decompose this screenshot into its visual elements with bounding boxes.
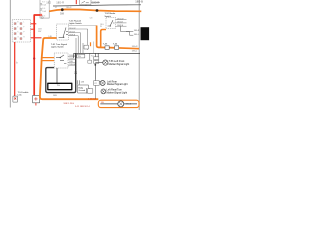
hazard pin wire to fuse drop (y=25.5) [68, 25, 96, 27]
svg-text:T-44: T-44 [113, 43, 118, 45]
svg-text:5-8: 5-8 [60, 13, 64, 16]
svg-text:W: W [100, 26, 102, 28]
orange stub to turn signal switch (lower) [41, 60, 54, 62]
connector ref box lower [94, 60, 99, 63]
svg-text:18R 1.25G: 18R 1.25G [63, 103, 74, 105]
fuse box bottom pin [41, 17, 43, 19]
fusible link box (left red wire end) [13, 96, 18, 102]
svg-text:18G-R: 18G-R [117, 22, 123, 24]
svg-text:18W-B: 18W-B [69, 35, 76, 37]
connector box C-2 [94, 81, 100, 86]
L1 label [109, 60, 130, 66]
connector stubs above ground label box [76, 80, 78, 84]
fuse box F (top-left) (40,0)-(49,18) [40, 0, 49, 18]
page border right [138, 0, 140, 110]
svg-text:L: L [23, 21, 24, 23]
red stub to flasher pin 2 [31, 28, 34, 30]
svg-text:Lights Switch: Lights Switch [51, 45, 65, 48]
svg-text:E: E [17, 26, 19, 28]
svg-text:b: b [16, 62, 18, 65]
fusible link label (left) [18, 92, 30, 97]
svg-text:5-11 18R-W 14: 5-11 18R-W 14 [75, 106, 90, 108]
switch symbol inside S1 [82, 1, 89, 3]
svg-text:18G-B: 18G-B [69, 31, 75, 33]
highlight box (orange) around failed lamp [98, 100, 139, 107]
turn signal pin wires right [68, 55, 76, 57]
pin stub S1 to top bus [85, 4, 87, 7]
red stub to flasher pin 1 [31, 23, 37, 25]
svg-text:18B-W: 18B-W [69, 64, 75, 66]
junction dot B (97,10.3) [96, 9, 99, 12]
svg-text:18G-W: 18G-W [69, 28, 75, 30]
flasher pin X marks (red) [14, 23, 22, 40]
fuse T-45 [105, 46, 109, 50]
svg-text:Link: Link [18, 95, 23, 97]
battery / fusible link box (main red end) [33, 95, 40, 102]
brake switch S4 dashed box (106,17)-(115.5,28.5) [106, 17, 116, 28]
svg-text:X: X [17, 31, 19, 33]
wire inside highlight box [100, 103, 137, 105]
L2 label [107, 80, 128, 86]
L3 label [107, 89, 128, 95]
red stub to flasher pin 3 (lower) [31, 37, 42, 39]
T-5 tag under bus [77, 54, 85, 58]
svg-text:P: P [23, 31, 25, 33]
brake switch symbol [108, 20, 115, 26]
ground strap label box [78, 85, 89, 93]
faint drop line left of hazard feed riser [93, 42, 95, 54]
orange wire hazard feed: elbow (42,37.3) down to bottom bus [40, 38, 98, 99]
svg-text:18G-W: 18G-W [117, 18, 123, 20]
lamp L4 (highlighted) [118, 101, 124, 107]
svg-text:F: F [23, 26, 25, 28]
svg-text:G: G [17, 36, 19, 38]
main ground bus (y=53.4) [74, 52, 140, 54]
hazard drop wires (middle verticals) [75, 38, 77, 53]
main orange feed wire (y=10.3) [49, 9, 141, 11]
hazard switch symbol [59, 28, 68, 38]
svg-text:18L-B: 18L-B [126, 103, 132, 105]
hazard pin wire (y=32.6) [68, 32, 80, 34]
red tick left of S1 [75, 0, 77, 4]
wire from S1 right (y=2.2) [91, 1, 100, 3]
flasher pin labels [17, 21, 25, 38]
hazard switch label [69, 20, 83, 26]
ground return path (U shape) [46, 53, 76, 92]
svg-text:Marker/Signal Light: Marker/Signal Light [107, 92, 128, 95]
junction dot [94, 64, 96, 66]
fuse T-44 [115, 46, 119, 50]
svg-text:T-45: T-45 [103, 43, 108, 45]
svg-text:18G-R: 18G-R [134, 30, 140, 32]
turn signal switch label [51, 43, 68, 49]
svg-text:T-51 Turn Signal: T-51 Turn Signal [51, 43, 68, 46]
brake switch S4 label [105, 12, 116, 18]
junction block (black box) [141, 27, 150, 40]
svg-text:Marker/Signal Light: Marker/Signal Light [109, 63, 130, 66]
fuse box left pins [40, 3, 42, 5]
svg-text:18G-R: 18G-R [56, 1, 64, 5]
svg-text:Ground: Ground [79, 90, 86, 92]
flasher relay U1 dashed box (12,19.5)-(30.5,42) [12, 20, 30, 42]
svg-text:14B: 14B [81, 82, 85, 84]
turn signal switch S3 dashed box (54,53)-(68,68) [54, 53, 68, 68]
orange wire hazard to fuse row (x=96.6) [97, 26, 139, 49]
svg-text:F-6: F-6 [42, 8, 46, 10]
page border left [9, 0, 11, 108]
red wire flasher to ground fuse (x=14.7) [14, 42, 16, 96]
hazard pin wire (y=35.7) [68, 35, 78, 37]
junction dot A (62.3,10.3) [61, 8, 64, 11]
svg-text:18G-B: 18G-B [135, 0, 143, 4]
orange tick x=90.5 [90, 42, 92, 46]
svg-text:18G-R: 18G-R [69, 55, 75, 57]
hazard pin wire (y=29) [68, 28, 87, 30]
turn signal switch symbol [56, 55, 66, 64]
top bus wire (black, y=5.3) [53, 5, 141, 6]
svg-text:5-8: 5-8 [90, 18, 93, 20]
stop lights harness staircase to junction block [121, 26, 134, 35]
connector box C-1 (84,45.2)-(88.5,49) [84, 45, 89, 49]
lamp L2 (left rear marker) [100, 81, 105, 86]
orange wire brake drop (x=100.7) [101, 30, 106, 47]
orange stub to turn signal switch (upper) [41, 57, 54, 59]
svg-text:Marker/Signal Light: Marker/Signal Light [107, 83, 128, 86]
svg-text:14B: 14B [53, 95, 57, 97]
lamp L1 (left front marker) [103, 60, 108, 65]
ground bus left drop stub [73, 53, 75, 58]
svg-text:T-52 Brake: T-52 Brake [105, 12, 116, 15]
svg-text:RW: RW [38, 31, 41, 33]
svg-text:18G-R: 18G-R [66, 7, 72, 9]
marker lights feed drops from ground bus [94, 53, 96, 79]
svg-text:18G: 18G [46, 1, 51, 5]
connector ref box upper [94, 57, 99, 60]
riser to rear light row [95, 80, 100, 82]
svg-text:10A: 10A [42, 10, 46, 13]
svg-text:R: R [23, 36, 25, 38]
red stub below battery box [35, 103, 37, 106]
svg-text:18G-L: 18G-L [69, 58, 75, 60]
svg-text:B: B [17, 21, 19, 23]
red wire from fuse box to battery (corner at 33.9,15) [34, 15, 40, 95]
plus mark inside battery box [34, 97, 37, 100]
svg-text:18G-R: 18G-R [132, 46, 138, 48]
hazard switch S2 dashed box (56.5,24)-(68.3,40) [57, 24, 69, 40]
horn switch S1 box (79.5,0)-(91,4.7) [80, 0, 91, 5]
brake pin wires right [116, 19, 127, 21]
stub to front light [95, 62, 103, 64]
svg-text:1.25G-R: 1.25G-R [88, 99, 97, 101]
lamp L3 (right rear marker) [101, 89, 106, 94]
svg-text:T-5: T-5 [91, 56, 94, 58]
fuse box red pin [40, 14, 42, 16]
stubs third row [86, 88, 88, 93]
svg-text:18G-L: 18G-L [132, 50, 138, 52]
ground unit box (thick border) [48, 83, 72, 89]
svg-text:T-51 Hazard: T-51 Hazard [69, 20, 82, 23]
svg-text:14: 14 [55, 7, 57, 9]
junction dot on red wire [33, 57, 35, 59]
fuse box internal text rows [42, 2, 46, 18]
connector ticks on right ground riser [74, 72, 77, 74]
turn signal bottom pin drop [56, 68, 58, 83]
svg-text:18G-L: 18G-L [134, 34, 139, 36]
connector box C-3 [88, 89, 93, 94]
svg-text:18G-R: 18G-R [92, 1, 99, 4]
svg-text:Lights Switch: Lights Switch [69, 22, 83, 25]
drop to connector near lights [89, 53, 91, 60]
riser between rows [94, 85, 96, 98]
